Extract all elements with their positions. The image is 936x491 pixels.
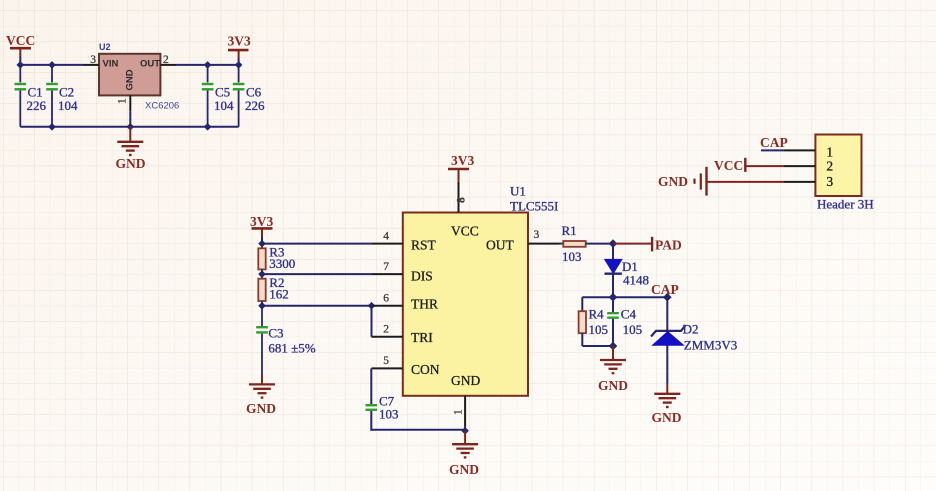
svg-text:GND: GND	[125, 69, 136, 90]
wire VCC stem	[19, 57, 21, 65]
zener diode D2 ZMM3V3	[651, 322, 737, 353]
ground GND under D2	[652, 384, 682, 426]
svg-text:5: 5	[383, 355, 389, 367]
junction 3V3/R3/RST	[258, 240, 266, 248]
svg-text:103: 103	[379, 407, 399, 422]
junction at C6/3V3	[235, 61, 243, 69]
junction rail C2	[48, 123, 56, 131]
wire junction to D1	[612, 244, 614, 260]
svg-text:8: 8	[456, 197, 468, 203]
junction at VCC/C1	[17, 61, 25, 69]
pin 5 CON	[372, 367, 403, 369]
wire CAP to D2	[666, 297, 668, 331]
wire C7 to GND junction	[371, 429, 465, 431]
pin 2 header	[784, 165, 815, 167]
svg-text:VCC: VCC	[714, 158, 743, 173]
svg-text:GND: GND	[451, 373, 480, 388]
svg-text:D2: D2	[683, 322, 699, 337]
wire pin1 to junction	[464, 427, 466, 431]
wire bottom rail	[20, 126, 238, 128]
svg-text:VIN: VIN	[103, 59, 119, 70]
svg-text:6: 6	[383, 293, 389, 305]
ground GND under chip	[449, 431, 479, 477]
svg-text:C3: C3	[268, 326, 283, 341]
svg-text:103: 103	[562, 249, 582, 264]
junction at C5	[204, 61, 212, 69]
power port 3V3 above U1	[448, 153, 474, 182]
wire OUT to R1	[560, 243, 564, 245]
pin 2 TRI	[372, 336, 403, 338]
wire OUT to 3V3	[176, 64, 239, 66]
pin 1 GND	[129, 95, 131, 111]
svg-text:OUT: OUT	[486, 238, 514, 253]
svg-text:104: 104	[58, 98, 78, 113]
capacitor C5	[202, 65, 234, 127]
ground GND regulator	[116, 127, 146, 171]
port PAD	[652, 237, 682, 253]
svg-text:VCC: VCC	[6, 33, 35, 48]
svg-text:4: 4	[383, 230, 389, 242]
svg-text:162: 162	[269, 287, 289, 302]
wire 3V3 to R3	[261, 237, 263, 244]
svg-text:DIS: DIS	[411, 269, 433, 284]
svg-text:105: 105	[623, 322, 643, 337]
svg-text:226: 226	[245, 98, 265, 113]
junction R2/C3/THR	[258, 302, 266, 310]
capacitor C6	[233, 65, 265, 127]
svg-text:CAP: CAP	[651, 282, 679, 297]
pin 1 header	[784, 149, 815, 151]
svg-text:U2: U2	[99, 42, 111, 52]
wire regulator gnd	[129, 111, 131, 127]
svg-text:OUT: OUT	[140, 59, 160, 70]
resistor R3	[258, 244, 295, 275]
svg-text:GND: GND	[658, 174, 688, 189]
svg-text:GND: GND	[116, 156, 146, 171]
pin 8 VCC	[458, 182, 460, 213]
svg-text:3V3: 3V3	[228, 34, 251, 49]
capacitor C2	[46, 65, 78, 127]
resistor R2	[258, 274, 289, 306]
svg-text:CAP: CAP	[760, 135, 788, 150]
svg-text:3: 3	[90, 54, 96, 66]
connector P1 Header 3H	[815, 135, 873, 212]
wire RST	[262, 243, 372, 245]
wire row R4/C4/CAP	[582, 296, 667, 298]
junction THR/TRI	[368, 302, 376, 310]
svg-text:C4: C4	[621, 307, 637, 322]
svg-text:CON: CON	[411, 362, 440, 377]
svg-text:ZMM3V3: ZMM3V3	[684, 338, 737, 353]
svg-text:GND: GND	[598, 378, 628, 393]
svg-text:681 ±5%: 681 ±5%	[268, 341, 315, 356]
svg-text:105: 105	[589, 322, 609, 337]
pin 3 VIN	[84, 64, 100, 66]
svg-text:4148: 4148	[623, 273, 649, 288]
pin 1 GND	[464, 396, 466, 427]
wire THR	[262, 305, 372, 307]
junction rail GND stem	[127, 123, 135, 131]
junction rail C5	[204, 123, 212, 131]
svg-text:3: 3	[826, 174, 833, 189]
pin 4 RST	[372, 243, 403, 245]
pin 7 DIS	[372, 273, 403, 275]
svg-text:3: 3	[534, 229, 540, 241]
svg-text:1: 1	[116, 98, 128, 104]
wire junction to PAD	[613, 243, 652, 245]
svg-text:GND: GND	[652, 410, 682, 425]
wire R1 to junction	[586, 243, 613, 245]
junction R3/R2/DIS	[258, 270, 266, 278]
wire 3V3 stem	[238, 58, 240, 65]
svg-text:3V3: 3V3	[451, 153, 474, 168]
capacitor C7	[366, 394, 399, 431]
svg-text:2: 2	[383, 324, 389, 336]
svg-text:Header 3H: Header 3H	[817, 197, 874, 212]
ground GND under R4	[598, 346, 628, 393]
svg-text:RST: RST	[411, 238, 437, 253]
wire DIS	[262, 273, 372, 275]
wire D1 to row	[612, 274, 614, 298]
resistor R1	[562, 223, 586, 264]
svg-text:GND: GND	[246, 401, 276, 416]
diode D1 4148	[605, 259, 650, 288]
wire TRI vertical	[371, 306, 373, 337]
ground GND mid-left	[246, 375, 276, 417]
svg-text:3300: 3300	[269, 256, 295, 271]
regulator U2 XC6206	[99, 42, 179, 112]
capacitor C1	[15, 65, 47, 127]
pin 3 OUT	[528, 243, 560, 245]
svg-text:R1: R1	[562, 223, 577, 238]
wire VCC to pin2	[745, 165, 784, 167]
pin 3 header	[784, 181, 815, 183]
svg-text:TRI: TRI	[411, 330, 433, 345]
svg-text:U1: U1	[510, 184, 526, 199]
svg-text:R4: R4	[589, 307, 605, 322]
svg-text:VCC: VCC	[451, 224, 479, 239]
wire R4 bottom to junction	[582, 345, 613, 347]
junction at C2	[48, 61, 56, 69]
svg-text:7: 7	[383, 261, 389, 273]
power port 3V3 top-left	[228, 34, 251, 58]
pin 6 THR	[372, 305, 403, 307]
resistor R4	[579, 297, 608, 346]
svg-text:THR: THR	[411, 297, 438, 312]
power port VCC	[6, 33, 35, 57]
svg-text:2: 2	[163, 54, 169, 66]
svg-text:TLC555I: TLC555I	[510, 199, 558, 214]
timer IC U1 TLC555I	[403, 184, 559, 396]
power port 3V3 mid-left	[250, 214, 273, 237]
capacitor C4	[607, 297, 642, 346]
svg-text:226: 226	[27, 98, 47, 113]
svg-text:GND: GND	[449, 462, 479, 477]
svg-text:1: 1	[826, 145, 833, 160]
junction row CAP	[663, 293, 672, 302]
power port VCC header	[714, 158, 745, 173]
junction GND under chip	[461, 427, 469, 435]
svg-text:1: 1	[453, 409, 465, 415]
wire VCC to VIN	[20, 64, 83, 66]
junction R4/C4 bottom	[609, 342, 618, 351]
svg-text:XC6206: XC6206	[145, 101, 179, 112]
wire CAP to pin1	[761, 149, 784, 151]
svg-text:3V3: 3V3	[250, 214, 273, 229]
junction OUT/D1/PAD	[609, 239, 618, 248]
ground GND header (rotated)	[658, 167, 707, 196]
junction row C4	[609, 293, 618, 302]
wire GND to pin3	[707, 181, 785, 183]
pin 2 OUT	[160, 64, 176, 66]
svg-text:PAD: PAD	[655, 238, 682, 253]
svg-text:2: 2	[826, 158, 833, 173]
wire CON down	[370, 368, 372, 404]
svg-text:104: 104	[214, 98, 234, 113]
wire D2 to GND	[666, 345, 668, 383]
capacitor C3	[256, 306, 316, 375]
